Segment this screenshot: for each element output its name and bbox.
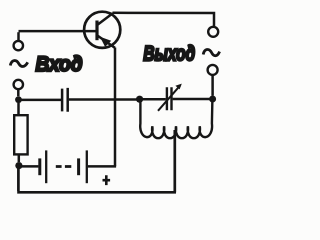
battery GB1: [40, 150, 87, 183]
svg-text:Выход: Выход: [143, 42, 195, 66]
resistor R1: [14, 115, 27, 154]
transistor Q1: [84, 12, 120, 48]
svg-text:Вход: Вход: [36, 52, 83, 76]
wire middle: node A to capacitor C1: [19, 99, 62, 102]
wire base: left terminal to transistor base: [19, 31, 98, 41]
wire: R1 to node D: [18, 154, 21, 162]
wire: node D to battery GB1: [19, 165, 38, 168]
wire collector top rail: [113, 13, 215, 27]
wire bottom rail: [17, 166, 176, 192]
wire: lower input terminal to node A: [17, 89, 20, 96]
wire emitter vertical: [114, 48, 117, 167]
wire: node B to variable capacitor C2: [140, 98, 166, 101]
terminal input upper: [14, 41, 23, 50]
wire: battery to emitter rail: [88, 165, 116, 168]
AC tilde left: [10, 61, 27, 67]
node B (junction dot): [136, 96, 143, 103]
terminal output lower: [208, 65, 218, 75]
inductor L1: [140, 99, 212, 138]
terminal input lower: [14, 80, 23, 89]
wire: C2 to node C: [173, 98, 213, 101]
terminal output upper: [208, 27, 218, 37]
node A (junction dot): [15, 96, 22, 103]
label + plus: [103, 175, 111, 185]
wire: lower output terminal to node C: [211, 75, 214, 96]
node D (junction dot): [15, 162, 22, 169]
wire: node A to resistor R1: [17, 103, 20, 115]
wire: C1 to node B: [69, 98, 140, 101]
wire: inductor L1 centre tap: [173, 130, 176, 192]
capacitor C1: [62, 88, 68, 112]
AC tilde right: [203, 49, 219, 55]
variable capacitor C2: [167, 87, 172, 110]
node C (junction dot): [209, 96, 216, 103]
